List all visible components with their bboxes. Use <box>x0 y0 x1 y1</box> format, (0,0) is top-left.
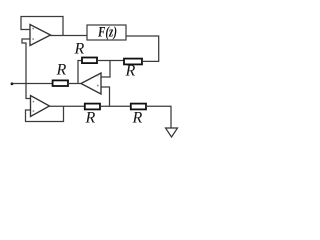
wire U2 lower input down to bottom row <box>101 87 110 106</box>
ground <box>166 128 178 137</box>
wire F(z) output loop to R2 <box>126 36 159 61</box>
wire U3 output row <box>49 105 85 107</box>
block F(z) U4 <box>87 25 126 40</box>
resistor R2 <box>124 59 142 65</box>
svg-text:F(z): F(z) <box>97 24 117 40</box>
node input terminal <box>11 82 14 85</box>
wire U1 lower input rail to U3 <box>22 39 31 99</box>
wire tap to U2 upper input <box>101 61 110 78</box>
resistor R1 feedback of U2 <box>82 58 97 64</box>
wire U2 feedback (output up to R1) <box>78 61 82 84</box>
resistor R4 <box>85 104 100 110</box>
svg-text:R: R <box>132 110 143 127</box>
wire U1 feedback loop <box>21 17 63 36</box>
svg-text:R: R <box>74 41 85 58</box>
resistor R3 <box>53 80 68 86</box>
wire R4 to R5 <box>100 105 131 107</box>
svg-text:R: R <box>125 63 136 80</box>
op-amp U3 <box>31 96 50 117</box>
resistor R5 <box>131 104 146 110</box>
wire R5 to ground <box>146 106 171 128</box>
wire U1 output to F(z) <box>50 35 87 37</box>
op-amp U2 <box>81 73 101 94</box>
svg-text:R: R <box>85 110 96 127</box>
svg-text:R: R <box>56 62 67 79</box>
op-amp U1 <box>30 25 51 46</box>
wire R1 to R2 with tap <box>97 60 124 62</box>
wire input to R3 <box>12 83 53 85</box>
wire R3 to U2 output <box>68 83 81 85</box>
wire U3 feedback loop (below) <box>26 106 64 122</box>
